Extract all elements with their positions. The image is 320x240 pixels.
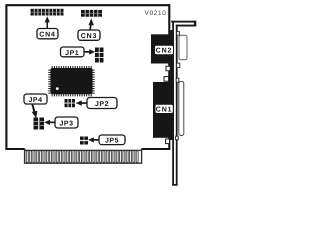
JP3 arrow xyxy=(44,120,55,125)
CN4 label arrow xyxy=(45,16,50,29)
D-sub top screw tab xyxy=(177,32,180,36)
edge connector top line xyxy=(25,149,142,151)
IC U1 (QFP chip) xyxy=(48,66,94,96)
svg-text:CN3: CN3 xyxy=(81,33,97,40)
bracket main vertical line xyxy=(172,21,174,186)
connector CN1 block xyxy=(153,82,173,138)
svg-text:JP5: JP5 xyxy=(105,138,119,145)
bracket bottom cap xyxy=(172,184,177,186)
CN1 label xyxy=(156,105,173,114)
svg-text:JP1: JP1 xyxy=(65,50,79,57)
D-sub2 top screw tab xyxy=(176,78,179,82)
connector CN2 block xyxy=(151,34,173,63)
D-sub2 bottom screw tab xyxy=(176,136,179,140)
JP3 label xyxy=(55,117,78,128)
CN2 label xyxy=(155,46,173,55)
JP1 label xyxy=(61,47,85,57)
svg-text:JP3: JP3 xyxy=(59,121,73,128)
svg-text:V0210: V0210 xyxy=(145,10,167,17)
small tab below CN2 xyxy=(166,66,170,71)
D-sub connector bottom (for CN1) xyxy=(179,82,184,136)
JP2 label xyxy=(87,98,117,109)
JP2 arrow xyxy=(76,100,87,105)
connector CN3 (pin header 2x5) xyxy=(81,10,102,17)
small tab above CN1 xyxy=(164,77,169,82)
bracket secondary vertical line xyxy=(176,25,178,186)
svg-text:JP2: JP2 xyxy=(95,101,109,108)
CN4 label xyxy=(37,29,58,39)
connector CN4 (pin header 2x9) xyxy=(31,9,64,16)
svg-text:JP4: JP4 xyxy=(28,97,42,104)
bracket thick bar beside connectors xyxy=(170,30,174,140)
JP5 arrow xyxy=(88,137,99,142)
svg-text:CN4: CN4 xyxy=(39,32,55,39)
JP5 label xyxy=(99,135,125,145)
JP4 arrow xyxy=(31,104,37,118)
jumper JP1 block (2x3) xyxy=(95,48,104,63)
svg-text:CN2: CN2 xyxy=(156,48,173,55)
JP4 label xyxy=(24,94,47,104)
jumper JP5 block (2x2) xyxy=(80,137,88,145)
edge connector fingers xyxy=(26,151,138,163)
jumper JP3/JP4 block (2x3) xyxy=(34,118,45,130)
CN3 label xyxy=(78,30,100,40)
bracket top tab outline xyxy=(171,21,196,23)
D-sub bottom screw tab xyxy=(177,63,180,67)
board outline xyxy=(6,5,169,149)
small tab below CN1 xyxy=(166,139,170,144)
jumper JP2 block (3x2) xyxy=(65,99,76,107)
CN3 label arrow xyxy=(89,18,94,30)
svg-text:CN1: CN1 xyxy=(156,107,173,114)
JP1 arrow xyxy=(84,49,95,54)
D-sub connector top (for CN2) xyxy=(179,35,187,60)
